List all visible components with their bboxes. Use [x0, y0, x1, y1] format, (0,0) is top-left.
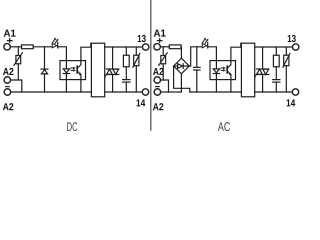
terminal A2 upper (DC) [4, 77, 11, 84]
label A2 (AC lower) [153, 103, 163, 110]
wire A2 corner to bridge bottom (AC) [169, 91, 182, 93]
wire resistor to bridge top (AC) [180, 47, 182, 58]
optocoupler LED (DC) [63, 61, 69, 92]
opto phototransistor (AC) [227, 61, 231, 80]
label A2 (AC upper) [153, 68, 163, 75]
flyback diode (DC), cathode up [41, 69, 48, 92]
terminal 13 (AC) [293, 44, 299, 50]
output driver block (AC) [241, 43, 254, 97]
wire bridge left to return rail (AC) [174, 66, 190, 92]
label 13 (DC) [138, 35, 146, 42]
terminal A2 lower (AC) [154, 89, 161, 96]
status LED (AC), in series on top wire [202, 43, 208, 48]
output bottom rail (DC) [105, 91, 143, 93]
wire emitter to bottom rail (AC) [230, 80, 232, 92]
opto phototransistor (DC) [77, 61, 81, 80]
resistor, input series (AC) [169, 45, 181, 49]
wire collector to output block (DC) [81, 43, 92, 60]
wire LED to optocoupler (DC) [58, 47, 67, 61]
terminal A1 (DC) [4, 44, 11, 51]
label A1 (AC input) [154, 30, 166, 37]
terminal 13 (DC) [143, 44, 149, 50]
terminal 14 (AC) [292, 89, 298, 95]
wire bridge right to top rail (AC) [189, 47, 202, 66]
output driver block (DC) [91, 43, 104, 97]
varistor across output (DC) [133, 47, 140, 92]
terminal A2 upper (AC) [154, 77, 161, 84]
bridge internal diode (AC) [174, 64, 190, 69]
label 14 (DC) [137, 99, 146, 106]
resistor, input series (DC) [22, 45, 34, 49]
bridge rectifier diamond (AC) [174, 58, 190, 74]
varistor across output (AC) [283, 47, 290, 92]
output bottom rail (AC) [255, 91, 293, 93]
wire collector to output block (AC) [231, 43, 242, 60]
bottom return rail (AC) [190, 91, 242, 93]
terminal 14 (DC) [142, 89, 148, 95]
wire LED to optocoupler (AC) [208, 47, 217, 61]
terminal A1 (AC) [154, 44, 161, 51]
label A2 (DC lower) [3, 103, 13, 110]
LED light arrows (DC) [53, 38, 59, 44]
snubber capacitor (DC) [123, 80, 130, 92]
caption DC [67, 122, 77, 131]
wire resistor to LED (DC) [33, 46, 52, 48]
optocoupler LED (AC) [213, 61, 219, 92]
wire A1 to resistor (DC) [10, 46, 21, 48]
status LED (DC), in series on top wire [52, 43, 58, 48]
plus polarity mark at A1 (AC) [157, 39, 162, 43]
LED light arrows (AC) [203, 38, 209, 44]
snubber resistor (DC) [123, 47, 129, 80]
node: flyback diode branch junction (DC) [44, 47, 46, 69]
label A2 (DC upper) [3, 68, 13, 75]
triac output element (AC) [255, 47, 269, 92]
optocoupler box (AC) [210, 61, 236, 80]
wire A1 to resistor (AC) [160, 46, 169, 48]
label A1 (DC input) [4, 30, 16, 37]
output top rail (AC) [255, 46, 293, 48]
wire emitter to bottom rail (DC) [80, 80, 82, 92]
label 14 (AC) [287, 99, 296, 106]
snubber capacitor (AC) [273, 80, 280, 92]
varistor across input (AC) [159, 47, 167, 80]
triac output element (DC) [105, 47, 119, 92]
output top rail (DC) [105, 46, 143, 48]
wire A2 upper to rail corner (DC) [11, 80, 22, 92]
minus polarity mark at A2 lower (DC) [6, 86, 9, 88]
divider line between DC and AC halves [150, 0, 152, 130]
wire bridge bottom drop (AC) [180, 74, 182, 92]
bottom input rail (DC) [11, 91, 92, 93]
optocoupler box (DC) [60, 61, 86, 80]
label 13 (AC) [288, 35, 296, 42]
smoothing capacitor branch (AC) [194, 47, 201, 92]
plus polarity mark at A1 (DC) [7, 39, 12, 43]
wire A2 lower to corner (AC) [161, 91, 169, 93]
caption AC [218, 122, 230, 131]
opto light arrows (DC) [71, 67, 76, 71]
terminal A2 lower (DC) [4, 89, 10, 96]
varistor across input (DC) [14, 47, 22, 80]
snubber resistor (AC) [273, 47, 279, 80]
opto light arrows (AC) [221, 67, 226, 71]
minus polarity mark at A2 lower (AC) [156, 86, 159, 88]
wire A2 upper to corner (AC) [161, 80, 169, 92]
